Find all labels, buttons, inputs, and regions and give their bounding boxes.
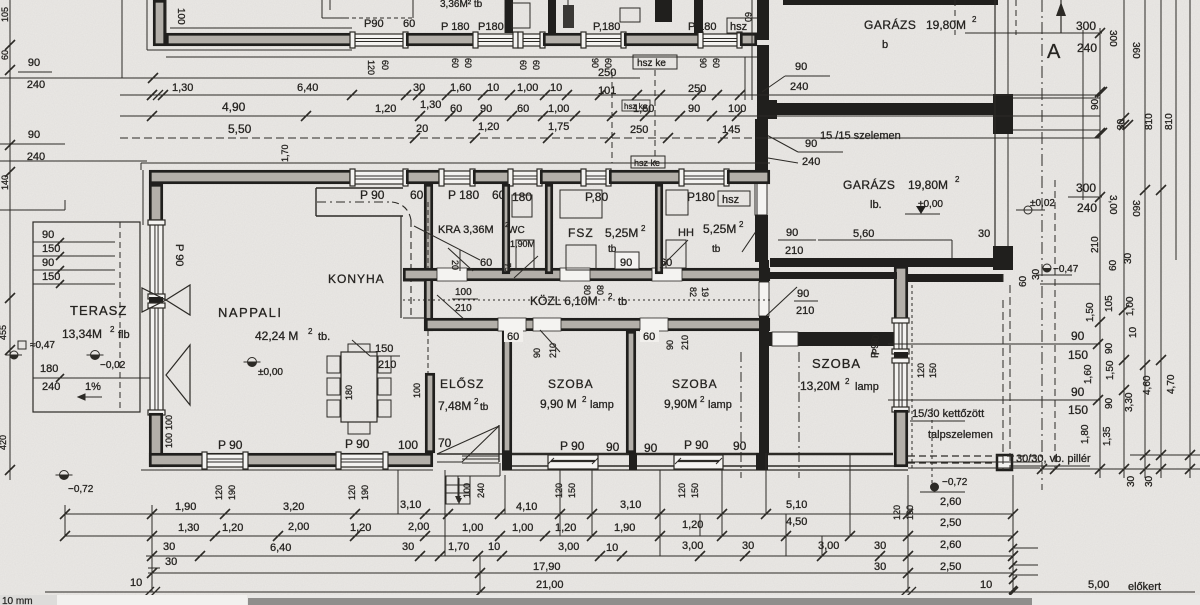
svg-text:810: 810 xyxy=(1144,113,1155,130)
svg-text:100: 100 xyxy=(455,287,472,298)
dim row B6 y592 xyxy=(45,591,1195,593)
svg-text:240: 240 xyxy=(790,81,808,93)
svg-text:60: 60 xyxy=(531,60,541,70)
right bottom long line y469 xyxy=(1040,468,1200,470)
szoba2/szoba3 wall lower xyxy=(759,316,769,453)
left wall middle pier xyxy=(149,297,163,305)
svg-text:100: 100 xyxy=(728,103,746,115)
svg-text:2: 2 xyxy=(955,175,960,184)
level -0,02 marker xyxy=(91,351,100,360)
svg-text:5,25M: 5,25M xyxy=(605,226,638,240)
svg-text:60: 60 xyxy=(660,257,672,269)
bottom dashed drop lines xyxy=(397,470,399,514)
svg-text:P 90: P 90 xyxy=(684,438,709,452)
svg-text:10: 10 xyxy=(980,579,992,591)
left margin vertical dimension line xyxy=(9,0,11,480)
svg-text:30: 30 xyxy=(1126,475,1137,487)
svg-text:240: 240 xyxy=(476,483,486,498)
elosz entry door swing diagonals xyxy=(437,426,499,454)
wall to garage xyxy=(741,34,755,44)
fsz/hh wall xyxy=(656,185,661,272)
hall north wall (szoba3 over corridor) xyxy=(769,272,897,279)
svg-text:1,00: 1,00 xyxy=(462,522,483,534)
szoba3 top wall xyxy=(769,332,897,346)
svg-text:180: 180 xyxy=(344,385,354,400)
svg-text:P 180: P 180 xyxy=(448,188,479,202)
hh door diagonal xyxy=(660,240,688,268)
bottom thin wall under szoba row xyxy=(502,453,893,455)
svg-text:4,60: 4,60 xyxy=(1142,375,1153,395)
svg-text:hsz: hsz xyxy=(722,194,739,206)
entrance door leaf xyxy=(498,425,500,462)
svg-text:60: 60 xyxy=(450,58,460,68)
bottom scale chip 10mm xyxy=(0,595,1200,605)
top building interior line xyxy=(165,0,167,33)
svg-text:150: 150 xyxy=(690,483,700,498)
svg-text:−0,72: −0,72 xyxy=(68,484,94,495)
svg-text:NAPPALI: NAPPALI xyxy=(218,305,282,320)
svg-text:60: 60 xyxy=(643,331,655,343)
top wall segment xyxy=(407,34,473,44)
svg-text:1,50: 1,50 xyxy=(1105,360,1116,380)
svg-text:810: 810 xyxy=(1164,113,1175,130)
svg-text:P 90: P 90 xyxy=(345,437,370,451)
svg-text:100: 100 xyxy=(398,438,418,452)
svg-text:210: 210 xyxy=(455,303,472,314)
svg-text:7,48M: 7,48M xyxy=(438,399,471,413)
line garage side y284 xyxy=(1040,283,1100,285)
svg-text:P180: P180 xyxy=(478,21,504,33)
top building left wall xyxy=(154,1,164,44)
doubled sill beam dashed lines xyxy=(908,455,1043,457)
svg-text:240: 240 xyxy=(1077,41,1097,55)
svg-text:tb: tb xyxy=(618,296,627,308)
elosz/szoba1 wall xyxy=(503,332,510,451)
svg-text:140: 140 xyxy=(0,175,10,190)
window tb-w2 xyxy=(475,34,516,46)
svg-text:1,90: 1,90 xyxy=(614,522,635,534)
svg-text:180: 180 xyxy=(40,363,58,375)
svg-text:P180: P180 xyxy=(687,190,715,204)
garage left wall upper xyxy=(757,0,769,40)
svg-text:60: 60 xyxy=(1108,259,1119,271)
svg-text:60: 60 xyxy=(1018,275,1029,287)
svg-text:2,00: 2,00 xyxy=(288,521,309,533)
svg-text:60: 60 xyxy=(463,58,473,68)
svg-text:2: 2 xyxy=(582,395,587,404)
window tb-w5 xyxy=(700,34,740,46)
svg-text:3,30: 3,30 xyxy=(1124,392,1135,412)
bottom area vertical connectors xyxy=(151,505,153,592)
rooms bottom wall (above KOZL) xyxy=(404,269,768,279)
svg-text:10: 10 xyxy=(606,542,618,554)
svg-text:3,00: 3,00 xyxy=(1107,195,1118,215)
svg-text:190: 190 xyxy=(360,485,370,500)
svg-text:90: 90 xyxy=(1071,385,1085,399)
svg-text:KONYHA: KONYHA xyxy=(328,272,385,286)
dim row y78 top xyxy=(148,77,640,79)
wall segment to hall xyxy=(625,34,698,44)
svg-text:tb.: tb. xyxy=(318,331,330,343)
top building inner rooms fragments xyxy=(504,0,506,33)
svg-text:240: 240 xyxy=(42,381,60,393)
svg-text:90: 90 xyxy=(1104,397,1115,409)
svg-text:105: 105 xyxy=(1104,295,1115,312)
wc door swing xyxy=(514,256,538,278)
hall door swing diagonal xyxy=(766,287,797,316)
garage bottom wall xyxy=(770,258,997,267)
kozl bottom wall xyxy=(426,319,768,329)
svg-text:4,50: 4,50 xyxy=(786,516,807,528)
svg-text:250: 250 xyxy=(688,83,706,95)
right margin vertical lines xyxy=(1041,0,1043,490)
bottom wall window 1 xyxy=(204,454,246,467)
svg-text:120: 120 xyxy=(677,483,687,498)
svg-text:KÖZL 6,10M: KÖZL 6,10M xyxy=(530,294,598,308)
nappali-kozl opening lines xyxy=(403,280,425,282)
svg-text:13,20M: 13,20M xyxy=(800,379,840,393)
svg-text:hsz: hsz xyxy=(730,21,747,33)
svg-text:90: 90 xyxy=(1071,329,1085,343)
svg-text:30: 30 xyxy=(742,540,754,552)
dining table bottom chair xyxy=(348,422,370,434)
right bottom extra line y455 xyxy=(1130,454,1200,456)
svg-text:10: 10 xyxy=(488,541,500,553)
svg-text:2: 2 xyxy=(700,395,705,404)
svg-text:15/30 kettőzött: 15/30 kettőzött xyxy=(912,408,984,420)
svg-text:60: 60 xyxy=(603,58,613,68)
svg-text:4,10: 4,10 xyxy=(516,501,537,513)
garage top wall at image edge xyxy=(783,0,998,5)
svg-text:120: 120 xyxy=(554,483,564,498)
svg-text:5,60: 5,60 xyxy=(853,228,874,240)
right wall lower corner xyxy=(895,411,906,465)
svg-text:100: 100 xyxy=(462,483,472,498)
svg-text:2,50: 2,50 xyxy=(940,517,961,529)
svg-text:60: 60 xyxy=(450,103,462,115)
svg-text:90: 90 xyxy=(733,439,747,453)
svg-text:1,00: 1,00 xyxy=(512,522,533,534)
top wall seg5 xyxy=(610,171,679,182)
window mh-top-4 xyxy=(583,171,609,184)
svg-text:5,10: 5,10 xyxy=(786,499,807,511)
svg-text:90: 90 xyxy=(797,288,809,300)
elosz door leader xyxy=(540,330,560,352)
svg-text:20: 20 xyxy=(416,123,428,135)
dining table top chair xyxy=(348,344,370,352)
house left wall lower xyxy=(150,414,161,465)
svg-text:210: 210 xyxy=(796,305,814,317)
left wall window 2 (door) xyxy=(150,305,163,413)
right margin ticks xyxy=(1095,87,1105,97)
dining table body xyxy=(341,352,377,422)
svg-text:90: 90 xyxy=(1104,342,1115,354)
garage lower-left wall bottom xyxy=(755,215,768,262)
svg-text:300: 300 xyxy=(1076,181,1096,195)
svg-text:30: 30 xyxy=(413,82,425,94)
wc fixtures xyxy=(512,195,532,217)
hall door opening in szoba2 wall xyxy=(759,282,769,316)
garage middle wall T junction xyxy=(757,100,777,119)
svg-text:lamp: lamp xyxy=(590,399,614,411)
svg-text:lamp: lamp xyxy=(708,399,732,411)
svg-text:HH: HH xyxy=(678,227,694,239)
svg-text:30: 30 xyxy=(402,541,414,553)
svg-text:300: 300 xyxy=(1107,30,1118,47)
svg-text:30: 30 xyxy=(874,561,886,573)
svg-text:120: 120 xyxy=(892,505,902,520)
svg-text:±0,00: ±0,00 xyxy=(258,367,283,378)
svg-text:1,00: 1,00 xyxy=(517,82,538,94)
svg-text:FSZ: FSZ xyxy=(568,226,594,240)
right wall window b xyxy=(894,360,907,410)
svg-text:90: 90 xyxy=(698,58,708,68)
svg-text:90: 90 xyxy=(644,441,658,455)
svg-text:10: 10 xyxy=(487,82,499,94)
svg-text:60: 60 xyxy=(507,331,519,343)
wc/fsz wall xyxy=(546,185,551,272)
svg-text:±0,02: ±0,02 xyxy=(1030,198,1055,209)
svg-text:120: 120 xyxy=(916,363,926,378)
svg-text:9,90M: 9,90M xyxy=(664,397,697,411)
svg-text:talpszelemen: talpszelemen xyxy=(928,429,993,441)
svg-text:250: 250 xyxy=(630,124,648,136)
svg-text:180: 180 xyxy=(512,190,532,204)
svg-text:80: 80 xyxy=(582,285,592,295)
svg-text:120: 120 xyxy=(214,485,224,500)
bottom wall feet piers xyxy=(502,453,512,470)
svg-text:455: 455 xyxy=(0,325,8,340)
garage middle wall xyxy=(777,103,995,115)
table chairs left xyxy=(327,356,340,373)
right wall window a xyxy=(894,320,907,352)
hszke boxed label small y104 xyxy=(622,100,650,111)
svg-text:30: 30 xyxy=(978,228,990,240)
svg-text:60: 60 xyxy=(711,58,721,68)
entrance steps xyxy=(446,476,470,504)
svg-text:30: 30 xyxy=(1123,252,1134,264)
svg-text:82: 82 xyxy=(688,287,698,297)
top wall seg2 xyxy=(407,171,439,182)
hall extension wall right of house xyxy=(908,274,1003,282)
svg-text:13,34M: 13,34M xyxy=(62,327,102,341)
svg-text:30: 30 xyxy=(1031,268,1042,280)
svg-text:P 90: P 90 xyxy=(560,439,585,453)
scrollbar thumb xyxy=(248,598,1032,605)
svg-text:90: 90 xyxy=(805,138,817,150)
svg-text:1,60: 1,60 xyxy=(633,103,654,115)
level marker -0,72 left xyxy=(60,471,69,480)
svg-text:90: 90 xyxy=(28,129,40,141)
svg-text:19,80M: 19,80M xyxy=(926,18,966,32)
svg-text:1,20: 1,20 xyxy=(350,522,371,534)
svg-text:90: 90 xyxy=(1090,98,1101,110)
svg-text:145: 145 xyxy=(722,124,740,136)
svg-text:90: 90 xyxy=(532,348,542,358)
svg-text:90: 90 xyxy=(606,440,620,454)
svg-text:≈0,47: ≈0,47 xyxy=(30,340,55,351)
svg-text:P 90: P 90 xyxy=(218,438,243,452)
right wall mid pier xyxy=(894,352,908,360)
svg-text:1,00: 1,00 xyxy=(548,103,569,115)
svg-text:tb: tb xyxy=(712,244,721,255)
dim row B5 y573 xyxy=(148,572,1013,574)
svg-text:3,00: 3,00 xyxy=(682,540,703,552)
svg-text:lb.: lb. xyxy=(870,199,882,211)
svg-text:1,30: 1,30 xyxy=(178,522,199,534)
svg-text:1,60: 1,60 xyxy=(1083,364,1094,384)
kra internal door swing xyxy=(448,248,473,271)
svg-text:19,80M: 19,80M xyxy=(908,178,948,192)
svg-text:1,30: 1,30 xyxy=(420,99,441,111)
svg-text:2: 2 xyxy=(972,15,977,24)
dim row B2 y536 xyxy=(65,535,1013,537)
svg-text:60: 60 xyxy=(517,103,529,115)
fsz 90 box xyxy=(615,252,639,269)
svg-text:2,60: 2,60 xyxy=(940,539,961,551)
dim row y95 long xyxy=(120,94,1100,96)
svg-text:2: 2 xyxy=(845,377,850,386)
svg-text:10: 10 xyxy=(550,82,562,94)
svg-text:1,70: 1,70 xyxy=(448,541,469,553)
svg-text:TERASZ: TERASZ xyxy=(70,303,127,318)
svg-text:SZOBA: SZOBA xyxy=(672,377,718,391)
svg-text:210: 210 xyxy=(1090,236,1101,253)
svg-text:1,20: 1,20 xyxy=(375,103,396,115)
garage right wall thin xyxy=(994,0,996,246)
svg-text:150: 150 xyxy=(1068,403,1088,417)
svg-text:P,80: P,80 xyxy=(585,190,608,204)
svg-text:3,36M² tb: 3,36M² tb xyxy=(440,0,483,10)
svg-text:90: 90 xyxy=(28,57,40,69)
left margin horizontal connector y78 xyxy=(0,77,148,79)
svg-text:210: 210 xyxy=(785,245,803,257)
svg-text:30: 30 xyxy=(163,541,175,553)
svg-text:90: 90 xyxy=(795,61,807,73)
svg-text:90: 90 xyxy=(590,58,600,68)
svg-text:1,50: 1,50 xyxy=(1085,302,1096,322)
svg-text:240: 240 xyxy=(27,79,45,91)
svg-text:1,90M: 1,90M xyxy=(510,239,535,249)
wall between xyxy=(544,34,581,44)
window mh-top-3 xyxy=(510,171,540,184)
svg-text:90: 90 xyxy=(480,103,492,115)
svg-text:75: 75 xyxy=(503,263,512,272)
svg-text:240: 240 xyxy=(802,156,820,168)
svg-text:P 90: P 90 xyxy=(173,244,185,266)
svg-text:10: 10 xyxy=(1128,326,1139,338)
svg-text:100: 100 xyxy=(412,383,422,398)
house top wall band xyxy=(150,171,350,182)
svg-text:100: 100 xyxy=(164,433,174,448)
kra door diagonal xyxy=(437,295,465,320)
svg-text:60: 60 xyxy=(0,50,10,60)
terasz outline xyxy=(33,222,140,412)
svg-text:3,00: 3,00 xyxy=(558,541,579,553)
top wall seg4 xyxy=(541,171,581,182)
svg-text:250: 250 xyxy=(598,67,616,79)
svg-text:WC: WC xyxy=(508,225,525,236)
szoba2/hall wall upper xyxy=(759,260,769,282)
svg-text:1,20: 1,20 xyxy=(555,522,576,534)
door opening in rooms bottom wall xyxy=(437,268,467,281)
house left wall upper xyxy=(150,185,161,220)
dim row y137 xyxy=(120,137,760,139)
svg-text:tb: tb xyxy=(480,402,489,413)
svg-text:100: 100 xyxy=(175,8,186,25)
svg-text:190: 190 xyxy=(227,485,237,500)
svg-text:1,20: 1,20 xyxy=(222,522,243,534)
svg-text:P 90: P 90 xyxy=(871,334,882,355)
pillar axis dash-dot verticals xyxy=(740,352,742,478)
nappali level marker xyxy=(248,358,257,367)
kra/wc wall xyxy=(503,185,508,272)
top building bottom wall left run xyxy=(167,34,351,44)
svg-text:KRA 3,36M: KRA 3,36M xyxy=(438,224,494,236)
garage middle wall right pillar xyxy=(993,94,1013,134)
svg-text:1,30: 1,30 xyxy=(172,82,193,94)
top wall seg6 to garage xyxy=(728,171,768,182)
table chairs right xyxy=(378,356,391,373)
svg-text:42,24 M: 42,24 M xyxy=(255,329,298,343)
svg-text:90: 90 xyxy=(688,103,700,115)
konyha/kra wall xyxy=(425,185,431,329)
svg-text:150: 150 xyxy=(1068,348,1088,362)
dim row B3 y556 xyxy=(146,555,1013,557)
svg-text:2: 2 xyxy=(641,224,646,233)
window tb-w1 in top wall xyxy=(352,34,406,46)
svg-text:5,50: 5,50 xyxy=(228,122,252,136)
section arrow A xyxy=(1060,0,1062,33)
svg-text:hsz ke: hsz ke xyxy=(637,58,666,69)
svg-text:6,40: 6,40 xyxy=(270,542,291,554)
svg-text:120: 120 xyxy=(347,485,357,500)
svg-text:420: 420 xyxy=(0,435,8,450)
svg-text:19: 19 xyxy=(700,287,710,297)
kozl corridor dashed centerline xyxy=(403,299,770,301)
svg-text:101: 101 xyxy=(598,85,616,97)
svg-text:240: 240 xyxy=(1077,201,1097,215)
svg-text:210: 210 xyxy=(548,343,558,358)
bottom wall window 2 xyxy=(338,454,386,467)
svg-text:5,00: 5,00 xyxy=(1088,579,1109,591)
svg-text:flb: flb xyxy=(118,329,130,341)
svg-text:360: 360 xyxy=(1130,42,1141,59)
svg-text:1,90: 1,90 xyxy=(175,501,196,513)
garage door opening left xyxy=(755,172,767,215)
svg-text:90: 90 xyxy=(786,227,798,239)
entrance step arrow xyxy=(458,478,460,504)
svg-text:1,20: 1,20 xyxy=(478,121,499,133)
marker -0,47 right margin xyxy=(1043,264,1051,272)
svg-text:120: 120 xyxy=(366,60,376,75)
bottom window szoba1 xyxy=(548,455,598,469)
svg-text:100: 100 xyxy=(164,415,174,430)
svg-text:210: 210 xyxy=(378,359,396,371)
svg-text:1,75: 1,75 xyxy=(548,121,569,133)
svg-text:60: 60 xyxy=(480,257,492,269)
svg-text:4,70: 4,70 xyxy=(1166,374,1177,394)
svg-text:105: 105 xyxy=(0,7,10,22)
window mh-top-2 xyxy=(441,171,473,184)
outer face line under top building wall xyxy=(166,56,757,58)
foundation lines right of house xyxy=(908,461,1040,463)
svg-text:5,25M: 5,25M xyxy=(703,222,736,236)
svg-text:150: 150 xyxy=(567,483,577,498)
svg-text:2: 2 xyxy=(110,325,115,334)
dim row y115 xyxy=(120,115,1100,117)
svg-text:90: 90 xyxy=(620,257,632,269)
